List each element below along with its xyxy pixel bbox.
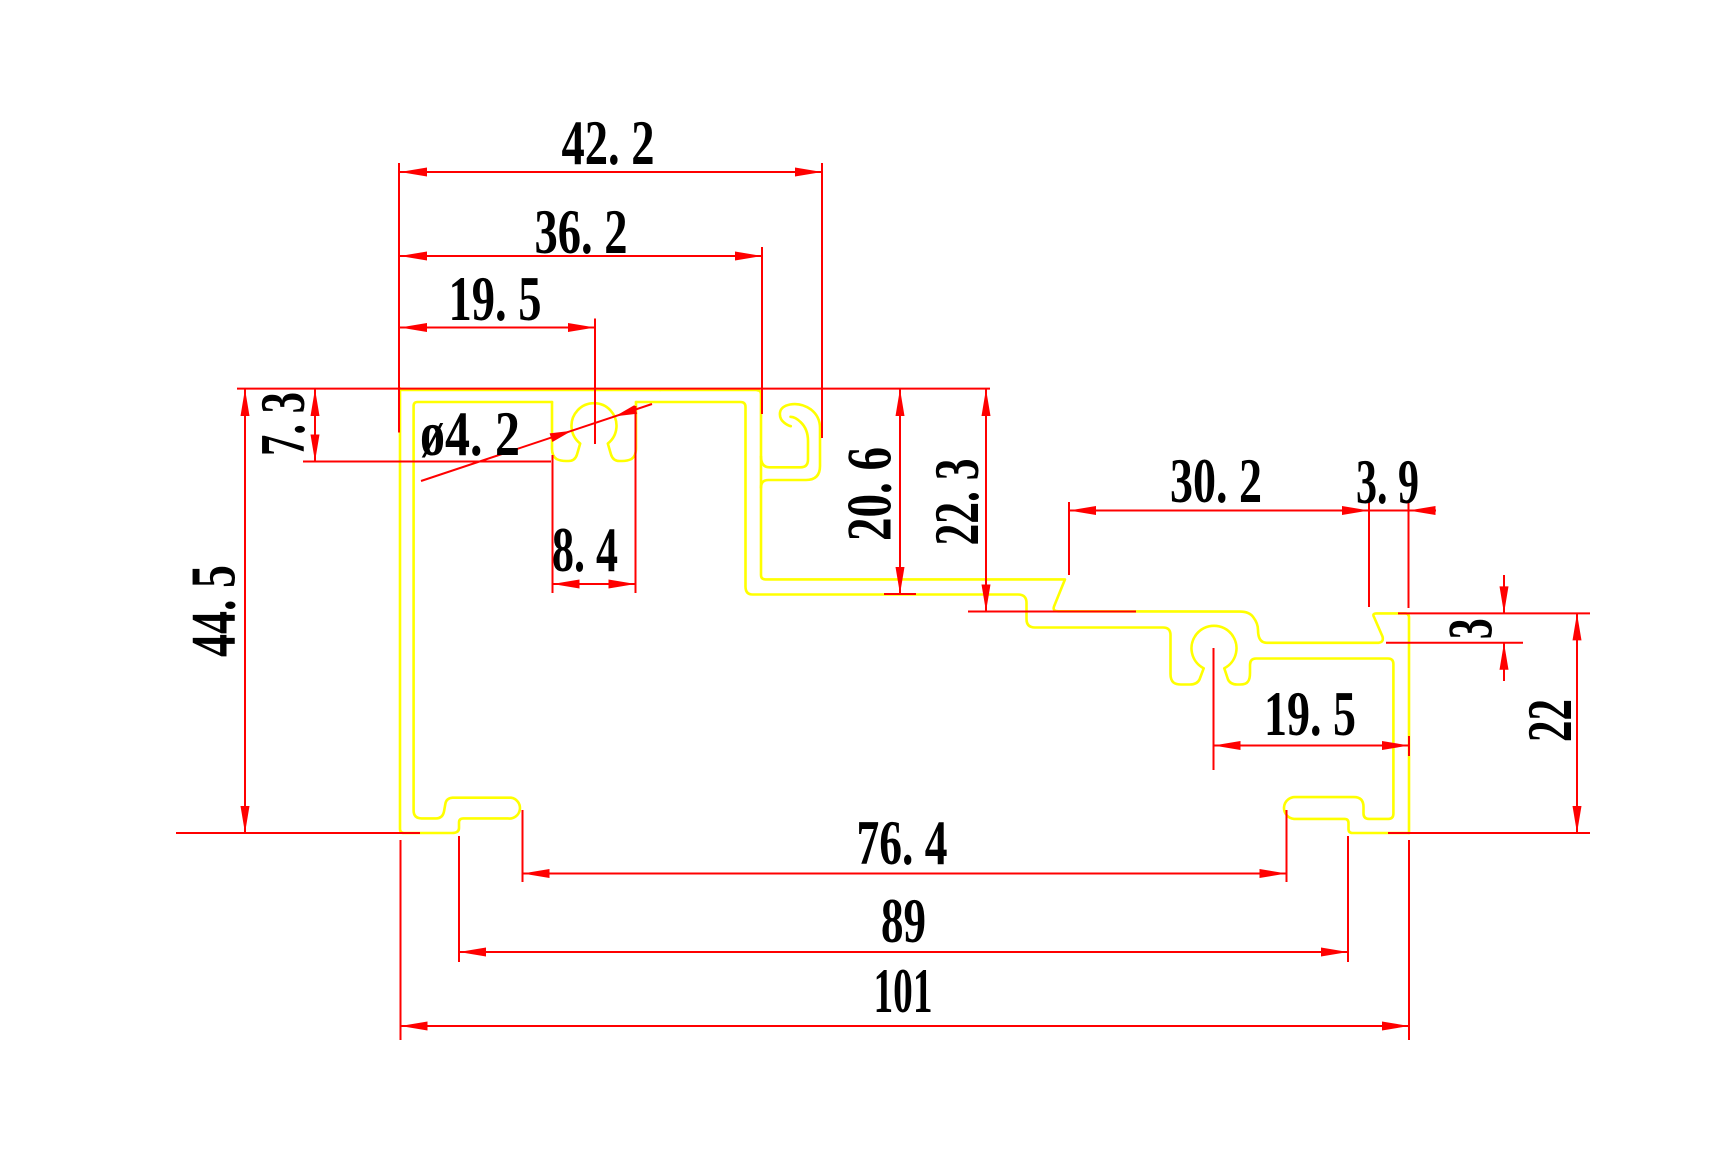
svg-text:22: 22: [1515, 699, 1585, 742]
node C: middle chamber top surface, right wall inner side, step1 bottom, z-drop, step2 bottom, keyhole screw port, arm bottom, inner right wall, right hook finger, bottom-right foot: [636, 402, 1409, 833]
wire: dim 19.5 lower line: [1214, 745, 1410, 747]
svg-text:30. 2: 30. 2: [1170, 446, 1262, 516]
wire: dim 19.5 lower witness from keyhole center: [1213, 648, 1215, 770]
wire: dim 7.3 line: [314, 389, 316, 462]
svg-text:89: 89: [881, 886, 926, 956]
wire: dim 3 / 22 shared top extension: [1398, 612, 1590, 614]
node A: left box outer wall, bottom-left foot, glazing hook finger, pocket, inner wall, inner top surface: [400, 388, 552, 833]
YELLOW PROFILE: [400, 388, 1409, 833]
node D: gasket-slot wall right side, step1 top, left barb, step2 top, S-bend, arm top, right barb, top-right surface, outer right wall: [758, 390, 1410, 833]
wire: dim 89 line: [459, 951, 1348, 953]
wire: dia 4.2 leader line: [421, 404, 652, 481]
svg-text:3. 9: 3. 9: [1356, 447, 1419, 517]
wire: dim 101 witness lines: [400, 840, 402, 1040]
wire: dim 19.5 witness into omega: [594, 319, 596, 445]
svg-text:3: 3: [1436, 618, 1506, 639]
wire: dim 22.3 line: [985, 389, 987, 612]
node B: omega screw channel (dia 4.2 port) hanging from top wall: [552, 402, 636, 461]
wire: dim 89 witness lines: [458, 836, 460, 962]
wire: dim 7.3 bottom extension: [303, 461, 551, 463]
wire: outer top edge thin continuation to gasket wall: [660, 389, 758, 391]
wire: dim 30.2 witness lines: [1068, 502, 1070, 575]
svg-text:ø4. 2: ø4. 2: [420, 399, 520, 469]
wire: dim 44.5 bottom extension: [176, 832, 420, 834]
wire: dim 22.3 bottom tick: [968, 611, 1136, 613]
wire: dim 42.2 line: [400, 171, 822, 173]
wire: dim 76.4 witness lines: [522, 810, 524, 882]
svg-text:22. 3: 22. 3: [922, 459, 992, 546]
wire: dim 3.9 witness: [1408, 502, 1410, 608]
wire: dim 20.6 line: [899, 389, 901, 594]
svg-text:76. 4: 76. 4: [857, 808, 948, 878]
wire: dim 8.4 witness lines: [552, 455, 554, 593]
svg-text:19. 5: 19. 5: [449, 264, 542, 334]
wire: dim 101 line: [401, 1025, 1410, 1027]
svg-text:36. 2: 36. 2: [535, 197, 628, 267]
wire: dim 22 bottom extension: [1388, 832, 1590, 834]
wire: dim 3 bottom extension: [1386, 642, 1523, 644]
wire: dim 3 line with outside arrows: [1503, 575, 1505, 613]
wire: dim 22 line: [1576, 613, 1578, 833]
node E: gasket curl outer lip (9-shape) at top right: [761, 404, 820, 487]
svg-text:44. 5: 44. 5: [179, 565, 249, 657]
svg-text:20. 6: 20. 6: [835, 447, 905, 541]
svg-text:42. 2: 42. 2: [562, 108, 655, 178]
wire: dim 44.5 line: [244, 389, 246, 833]
wire: dim 8.4 line: [553, 583, 636, 585]
wire: dim 20.6 bottom tick: [884, 593, 916, 595]
wire: dim 36.2 witness: [761, 247, 763, 414]
wire: dim 3.9 line and outside arrow: [1369, 510, 1436, 512]
wire: dim 76.4 line: [523, 873, 1287, 875]
wire: dim 42.2 witness lines: [398, 163, 400, 433]
wire: outer top edge (thick visible part): [400, 388, 660, 391]
wire: dim 30.2 line: [1069, 510, 1369, 512]
wire: shared top extension line y=389: [237, 388, 990, 390]
wire: dim 19.5 top line: [400, 327, 595, 329]
svg-text:101: 101: [874, 956, 933, 1026]
svg-text:8. 4: 8. 4: [552, 515, 618, 585]
wire: dim 36.2 line: [400, 255, 762, 257]
node F: gasket curl inner slot boundary: [761, 417, 808, 468]
RED DIMENSIONS: [176, 163, 1590, 1040]
svg-text:19. 5: 19. 5: [1264, 679, 1356, 749]
svg-text:7. 3: 7. 3: [248, 392, 318, 456]
